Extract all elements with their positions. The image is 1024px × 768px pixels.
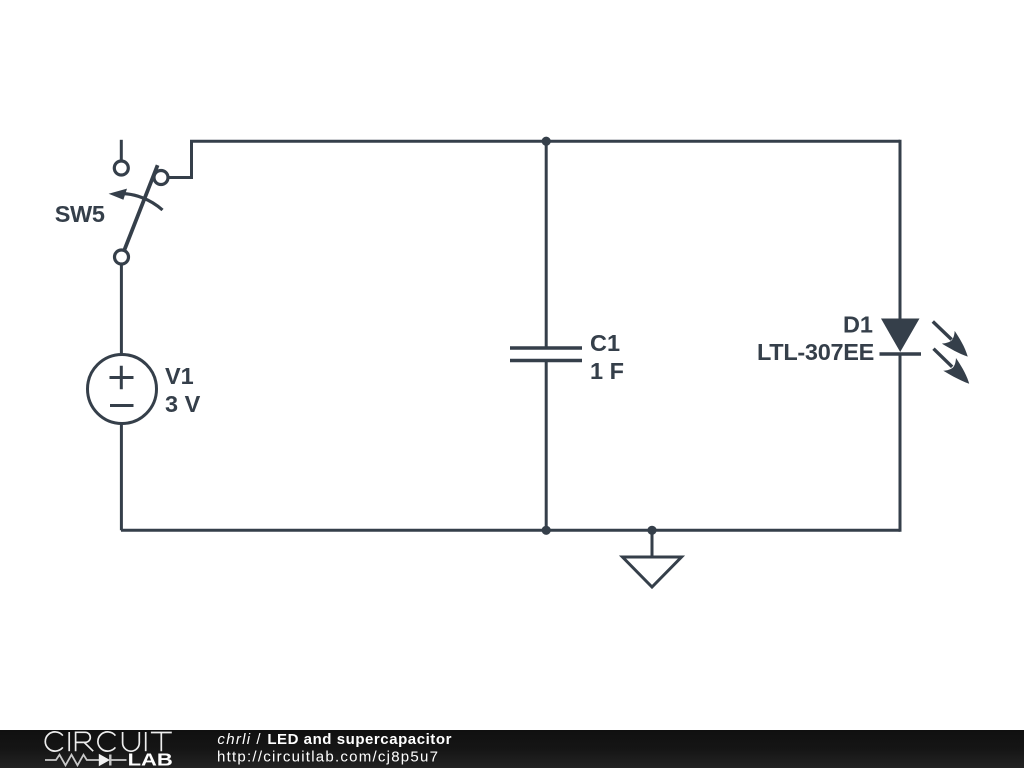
footer bar: [0, 730, 1024, 768]
footer logo diode triangle: [99, 754, 110, 766]
LED D1: [757, 312, 976, 391]
switch lever: [124, 165, 158, 251]
svg-text:D1: D1: [843, 312, 873, 338]
junction dot: ground tap: [647, 526, 656, 535]
logo letter R: [76, 732, 94, 751]
V1 minus sign: [110, 404, 134, 407]
V1 body circle: [88, 355, 157, 424]
svg-text:SW5: SW5: [55, 201, 105, 227]
wire: right rail upper (to LED anode): [899, 140, 902, 319]
wire: right rail lower (LED cathode to bottom): [899, 355, 902, 532]
svg-text:C1: C1: [590, 330, 620, 356]
logo letter I: [145, 732, 147, 751]
svg-text:chrli / LED and supercapacitor: chrli / LED and supercapacitor: [217, 731, 452, 748]
svg-text:V1: V1: [165, 363, 194, 389]
wire: switch throw to top rail jog: [168, 141, 192, 177]
C1 top plate: [510, 346, 582, 350]
logo letter T: [151, 733, 172, 752]
wire: capacitor top lead: [545, 141, 548, 346]
V1 plus sign: [110, 366, 134, 390]
junction dot: bottom of C1: [542, 526, 551, 535]
wire: top rail: [190, 140, 900, 143]
wire: capacitor bottom lead: [545, 362, 548, 530]
voltage source V1: [88, 355, 201, 424]
wire: switch pole to V1 top: [120, 264, 123, 355]
D1 light arrow 2: [926, 343, 976, 391]
switch terminal circle: bottom pole: [115, 250, 129, 264]
D1 cathode bar: [880, 352, 922, 356]
ground: [623, 531, 682, 587]
svg-text:LAB: LAB: [128, 750, 173, 768]
switch actuation arc: [119, 193, 163, 210]
switch arrowhead: [109, 189, 127, 200]
logo letter C: [98, 732, 116, 751]
logo letter U: [123, 732, 140, 751]
svg-text:http://circuitlab.com/cj8p5u7: http://circuitlab.com/cj8p5u7: [217, 749, 439, 766]
junction dot: top of C1: [542, 137, 551, 146]
footer logo CIRCUIT (skeleton strokes): [45, 732, 172, 751]
wire: switch top open terminal stub: [120, 140, 123, 162]
svg-text:LTL-307EE: LTL-307EE: [757, 339, 874, 365]
capacitor C1: [510, 330, 624, 384]
logo letter I: [68, 732, 70, 751]
ground triangle: [623, 557, 682, 587]
svg-text:1 F: 1 F: [590, 358, 624, 384]
wire: bottom rail: [121, 529, 900, 532]
switch SW5: [55, 161, 168, 264]
D1 triangle (anode): [881, 319, 920, 353]
wire: V1 bottom to bottom rail: [120, 424, 123, 531]
switch terminal circle: right throw (closed): [154, 171, 168, 185]
footer logo resistor-diode glyph: [45, 755, 127, 766]
ground stub: [651, 531, 654, 557]
D1 light arrow 1: [924, 316, 975, 364]
C1 bottom plate: [510, 359, 582, 363]
logo letter C: [45, 732, 63, 751]
switch terminal circle: top open throw: [114, 161, 128, 175]
svg-text:3 V: 3 V: [165, 391, 201, 417]
